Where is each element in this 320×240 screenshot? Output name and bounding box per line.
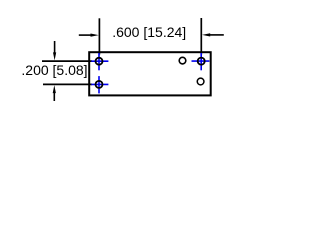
pad 1 crosshair (blue) bbox=[91, 53, 108, 70]
extension line top (horizontal, from pad 1) bbox=[42, 60, 92, 62]
dimension leader bottom with up arrow bbox=[53, 93, 55, 102]
hole bottom-right plain bbox=[197, 78, 204, 85]
dimension leader top with down arrow bbox=[54, 41, 56, 54]
extension line left (vertical, through pad 1) bbox=[98, 18, 100, 54]
component body outline bbox=[89, 52, 211, 95]
svg-text:.600 [15.24]: .600 [15.24] bbox=[112, 24, 186, 40]
dimension leader right with arrow bbox=[208, 34, 224, 36]
pad 2 hole bbox=[96, 81, 103, 88]
pad 3 hole bbox=[198, 58, 205, 65]
pad 2 crosshair (blue) bbox=[91, 76, 108, 93]
extension line bottom (horizontal, from pad 2) bbox=[43, 83, 92, 85]
extension line right (vertical, through pad 3) bbox=[200, 18, 202, 55]
pad 3 crosshair (blue) bbox=[192, 53, 210, 70]
dimension leader left with arrow bbox=[79, 34, 93, 36]
svg-text:.200 [5.08]: .200 [5.08] bbox=[21, 62, 87, 78]
pad 1 hole bbox=[96, 58, 103, 65]
hole top-right plain bbox=[179, 57, 186, 64]
